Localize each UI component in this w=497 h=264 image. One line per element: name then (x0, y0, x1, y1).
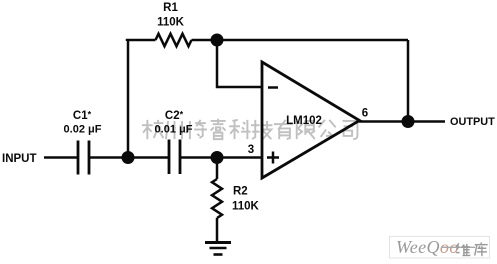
svg-text:0.02 μF: 0.02 μF (64, 124, 102, 136)
watermark Q tail strike line (441, 246, 475, 248)
wire: right vertical down to output node (407, 40, 410, 122)
svg-text:C1*: C1* (73, 110, 92, 123)
svg-text:R1: R1 (163, 2, 178, 14)
wire: output (359, 120, 445, 123)
wire: C2 to op-amp plus input (pin 3) (181, 156, 262, 159)
wire: R2 to ground (216, 218, 219, 241)
node A junction dot (122, 151, 135, 164)
svg-text:INPUT: INPUT (2, 153, 37, 165)
watermark 维库 glyphs (456, 243, 470, 255)
wire: left vertical from node A up (127, 40, 130, 158)
op-amp U1 LM102 triangle (262, 62, 360, 178)
svg-text:C2*: C2* (165, 110, 184, 123)
node D junction dot (211, 151, 224, 164)
svg-text:R2: R2 (233, 186, 248, 198)
svg-text:3: 3 (248, 144, 254, 156)
wire: INPUT lead (44, 156, 77, 159)
capacitor C2 (169, 140, 180, 175)
wire: R1 to top right corner (192, 39, 409, 42)
op-amp plus input symbol (267, 152, 279, 164)
capacitor C1 (78, 141, 89, 175)
svg-text:110K: 110K (157, 17, 185, 29)
output node junction dot (402, 115, 415, 128)
wire: node B down to minus input (217, 40, 262, 87)
watermark WeeQoo box (390, 237, 490, 259)
wire: C1 to C2 through node A (90, 156, 168, 159)
node B junction dot (211, 34, 224, 47)
svg-text:6: 6 (362, 108, 368, 120)
svg-text:LM102: LM102 (286, 115, 322, 127)
svg-text:110K: 110K (232, 201, 260, 213)
op-amp minus input symbol (268, 86, 278, 89)
svg-text:OUTPUT: OUTPUT (450, 116, 495, 128)
watermark: Hangzhou Jiangrui Technology Co. Ltd (drawn gray glyph strokes) (142, 119, 357, 139)
resistor R1 zigzag (156, 34, 192, 46)
ground (205, 243, 231, 255)
wire: top left to R1 (127, 40, 156, 41)
wire: node D down to R2 (216, 158, 219, 180)
resistor R2 zigzag (212, 179, 222, 218)
